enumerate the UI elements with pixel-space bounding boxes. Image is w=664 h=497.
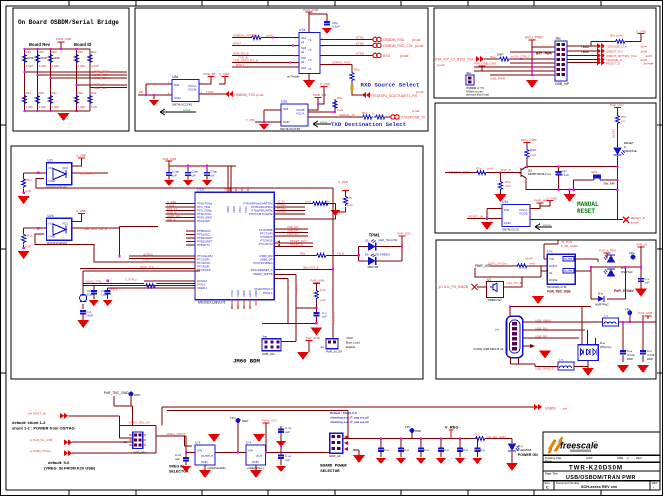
svg-text:R-x: R-x (475, 432, 480, 436)
svg-text:SIZE: SIZE (617, 456, 623, 460)
svg-text:uSTDIO: uSTDIO (143, 252, 154, 256)
svg-text:RESET_B: RESET_B (606, 62, 620, 66)
svg-text:PTAx_Bx: PTAx_Bx (294, 283, 298, 295)
svg-text:GND1: GND1 (549, 264, 558, 268)
svg-text:U-x: U-x (547, 250, 553, 254)
svg-text:OUTPUT: OUTPUT (201, 454, 214, 458)
svg-text:ETM2: ETM2 (356, 42, 364, 46)
svg-text:uxF: uxF (285, 430, 290, 434)
svg-text:PTAu_TTX: PTAu_TTX (140, 265, 154, 269)
svg-text:uxF: uxF (285, 458, 290, 462)
svg-text:xxMishi?a+x: xxMishi?a+x (247, 466, 264, 470)
svg-text:SN74LVC1T45: SN74LVC1T45 (280, 127, 300, 131)
svg-text:3a: 3a (549, 271, 553, 275)
svg-text:OUTA: OUTA (564, 257, 572, 261)
svg-text:HDR_3Ex: HDR_3Ex (133, 451, 147, 455)
svg-text:TPa: TPa (629, 251, 635, 255)
svg-text:PoR_TBC_USB: PoR_TBC_USB (547, 290, 571, 294)
svg-text:S_VBB: S_VBB (76, 154, 86, 158)
svg-text:PoR_TBC_GND: PoR_TBC_GND (104, 391, 129, 395)
svg-text:RESET_B: RESET_B (631, 216, 645, 220)
svg-text:(PGnnn): (PGnnn) (600, 345, 611, 349)
svg-text:GND: GND (504, 221, 512, 225)
svg-text:DNP: DNP (530, 148, 536, 152)
svg-text:4.64K: 4.64K (91, 64, 99, 68)
svg-text:ADC0: ADC0 (248, 290, 252, 297)
svg-text:DNP: DNP (54, 56, 60, 60)
svg-text:BRD_IDb: BRD_IDb (94, 86, 107, 90)
svg-text:OSB_s0a: OSB_s0a (262, 352, 275, 356)
svg-text:OSBDM_RXD_CTa: OSBDM_RXD_CTa (383, 44, 413, 48)
svg-text:R9a: R9a (354, 68, 360, 72)
svg-text:REV: REV (636, 456, 642, 460)
svg-text:RXD7: RXD7 (233, 42, 241, 46)
svg-text:VDDA: VDDA (236, 290, 240, 297)
svg-text:PoR_Ju_5V: PoR_Ju_5V (326, 350, 342, 354)
svg-text:SN74LVC1G: SN74LVC1G (502, 228, 520, 232)
svg-text:P_5B_USBa: P_5B_USBa (561, 244, 578, 248)
svg-text:J6a: J6a (555, 37, 561, 41)
svg-text:R3c: R3c (52, 91, 58, 95)
svg-text:GND2: GND2 (549, 278, 558, 282)
svg-text:LED_YELLOW: LED_YELLOW (379, 238, 398, 242)
svg-text:U7a: U7a (299, 28, 305, 32)
svg-text:1.0K: 1.0K (91, 105, 97, 109)
svg-text:R2b: R2b (39, 50, 45, 54)
svg-text:ETM1: ETM1 (356, 36, 364, 40)
svg-text:SN74LVC1T45: SN74LVC1T45 (172, 103, 192, 107)
svg-text:DNP: DNP (242, 419, 248, 423)
svg-text:TBDa: TBDa (581, 45, 589, 49)
svg-text:R9c: R9c (252, 34, 258, 38)
svg-text:TPx: TPx (405, 425, 411, 429)
svg-text:BOARD POWER: BOARD POWER (320, 465, 347, 469)
svg-text:R2e: R2e (91, 50, 97, 54)
svg-text:TPD_SER2_RX_B: TPD_SER2_RX_B (233, 59, 258, 63)
svg-text:VDD1: VDD1 (226, 206, 230, 213)
svg-text:PTC10/TSI: PTC10/TSI (259, 242, 273, 246)
svg-text:sn74cbtlv: sn74cbtlv (287, 75, 300, 79)
svg-text:TOD: TOD (143, 257, 149, 261)
svg-text:VDD2: VDD2 (232, 206, 236, 213)
svg-text:SERIAL_TX: SERIAL_TX (339, 113, 355, 117)
svg-text:TB GREEN: TB GREEN (375, 253, 389, 257)
svg-text:OSBDM_RXD: OSBDM_RXD (383, 38, 405, 42)
svg-text:DNP: DNP (627, 357, 633, 361)
svg-text:OSB_PWR: OSB_PWR (490, 77, 506, 81)
svg-text:DIR: DIR (283, 107, 289, 111)
svg-text:VOUT33/VREG: VOUT33/VREG (253, 261, 273, 265)
svg-text:VIN: VIN (549, 257, 554, 261)
svg-text:xxF: xxF (322, 315, 327, 319)
svg-text:ju=a#: ju=a# (630, 221, 639, 225)
svg-text:S_GND: S_GND (636, 30, 647, 34)
svg-text:U1x: U1x (502, 200, 508, 204)
svg-text:MIC2026-1YM: MIC2026-1YM (547, 285, 567, 289)
svg-text:VCCB: VCCB (519, 212, 527, 216)
svg-text:HDR_ab: HDR_ab (329, 454, 341, 458)
svg-text:R1s: R1s (27, 234, 33, 238)
svg-text:DNP: DNP (134, 393, 140, 397)
svg-text:RXD Source Select: RXD Source Select (361, 82, 420, 89)
svg-text:VSSA: VSSA (230, 290, 234, 297)
svg-text:OUT: OUT (256, 454, 263, 458)
svg-text:3Ba_RST_B: 3Ba_RST_B (303, 265, 319, 269)
svg-text:USB_DN: USB_DN (535, 326, 547, 330)
svg-text:1.00K: 1.00K (78, 105, 86, 109)
svg-text:PoRa_VCC: PoRa_VCC (262, 419, 278, 423)
svg-text:OSBDM_TXD: OSBDM_TXD (234, 93, 256, 97)
svg-text:VREF: VREF (242, 290, 246, 297)
svg-text:PG_RD_GRD: PG_RD_GRD (487, 435, 507, 439)
svg-text:PoR_VCC: PoR_VCC (610, 103, 625, 107)
svg-text:OSB_mP: OSB_mP (555, 82, 570, 86)
svg-text:a bus: a bus (543, 223, 551, 227)
svg-text:R9m: R9m (362, 111, 369, 115)
svg-text:VSS2: VSS2 (244, 206, 248, 213)
svg-text:freescale: freescale (560, 441, 598, 451)
svg-text:BAT - PWR: BAT - PWR (536, 52, 552, 56)
svg-text:PTD7a: PTD7a (277, 210, 286, 214)
svg-text:R3a: R3a (26, 91, 32, 95)
svg-text:PoR_USB: PoR_USB (163, 157, 177, 161)
svg-text:U1e: U1e (281, 100, 287, 104)
svg-text:S_GND: S_GND (219, 72, 230, 76)
svg-text:S_VDD: S_VDD (338, 180, 349, 184)
svg-text:1xpF: 1xpF (101, 293, 108, 297)
svg-text:PTB16/TX: PTB16/TX (197, 243, 210, 247)
svg-text:VCCB: VCCB (188, 88, 196, 92)
svg-text:D6: D6 (365, 253, 369, 257)
svg-text:SELECTOR: SELECTOR (320, 470, 340, 474)
svg-text:GND: GND (174, 96, 182, 100)
svg-text:C-u: C-u (384, 448, 389, 452)
svg-text:xxxF: xxxF (505, 184, 512, 188)
svg-text:TPM1: TPM1 (369, 233, 381, 238)
svg-text:USB_SHIELD: USB_SHIELD (535, 367, 555, 371)
svg-text:4.64K: 4.64K (78, 64, 86, 68)
svg-text:R9e: R9e (337, 96, 343, 100)
svg-text:xxF: xxF (191, 174, 196, 178)
svg-text:TPu: TPu (230, 416, 236, 420)
svg-text:R8x: R8x (325, 200, 331, 204)
svg-text:SW_MR: SW_MR (604, 182, 616, 186)
svg-text:TLED/DM: TLED/DM (518, 448, 532, 452)
svg-text:R3d: R3d (78, 91, 84, 95)
svg-text:PTE1ESP1_SOUT/UART1_RX: PTE1ESP1_SOUT/UART1_RX (370, 94, 418, 98)
svg-text:C-u: C-u (480, 448, 485, 452)
svg-text:1.00K: 1.00K (52, 105, 60, 109)
svg-text:ju=a#: ju=a# (411, 109, 420, 113)
svg-text:USB_VBUS: USB_VBUS (535, 318, 551, 322)
svg-text:4.64K: 4.64K (26, 64, 34, 68)
svg-text:4.64K: 4.64K (39, 64, 47, 68)
svg-text:PTD7/CMT/UARTa: PTD7/CMT/UARTa (249, 212, 273, 216)
svg-text:GND: GND (201, 460, 209, 464)
svg-text:dormant Boot load: dormant Boot load (466, 93, 489, 97)
svg-text:0.1uF: 0.1uF (562, 173, 570, 177)
svg-text:xxx: xxx (621, 119, 626, 123)
svg-text:BRD_REVc: BRD_REVc (94, 76, 110, 80)
svg-text:default: shunt 1-2: default: shunt 1-2 (12, 420, 46, 425)
svg-text:TXD1: TXD1 (206, 90, 214, 94)
svg-text:u5.0A: u5.0A (525, 257, 533, 261)
svg-text:Y4: Y4 (308, 67, 312, 71)
svg-text:xxNishiloaMG: xxNishiloaMG (207, 466, 226, 470)
svg-text:32KHZ_XTAL: 32KHZ_XTAL (85, 280, 102, 284)
svg-text:C-u: C-u (444, 448, 449, 452)
svg-text:VREFH: VREFH (197, 286, 206, 290)
svg-text:R8u: R8u (347, 196, 353, 200)
svg-text:3MK?1B: 3MK?1B (367, 265, 378, 269)
svg-text:USB_DP: USB_DP (535, 334, 547, 338)
svg-text:ju=a#: ju=a# (255, 93, 264, 97)
svg-text:DIR: DIR (174, 83, 180, 87)
svg-text:C-u: C-u (404, 448, 409, 452)
svg-text:R5a: R5a (476, 167, 482, 171)
svg-text:PoR_GND: PoR_GND (306, 336, 321, 340)
svg-text:OSB/JT_DO: OSB/JT_DO (606, 50, 623, 54)
svg-text:S_VBB: S_VBB (76, 209, 86, 213)
svg-text:R3b: R3b (39, 91, 45, 95)
svg-text:3B: 3B (139, 90, 143, 94)
svg-text:RXD: RXD (383, 54, 391, 58)
svg-text:xxF: xxF (172, 174, 177, 178)
svg-text:1.00K: 1.00K (39, 105, 47, 109)
svg-text:NSR?PaC: NSR?PaC (595, 303, 610, 307)
svg-text:ju# POUT_di+: ju# POUT_di+ (27, 412, 47, 416)
svg-text:REV: REV (652, 481, 658, 485)
svg-text:2x: 2x (124, 440, 128, 444)
svg-text:SCH-xxxxx REV xxx: SCH-xxxxx REV xxx (581, 485, 618, 489)
svg-text:GND: GND (283, 120, 291, 124)
svg-text:D5: D5 (365, 238, 369, 242)
svg-text:VIN: VIN (197, 449, 202, 453)
svg-text:PoR_LED: PoR_LED (397, 232, 411, 236)
svg-text:xxxF: xxxF (320, 298, 327, 302)
svg-text:RXD1: RXD1 (236, 63, 244, 67)
svg-text:U2s: U2s (48, 214, 54, 218)
svg-text:J-ar: J-ar (262, 335, 267, 339)
svg-text:J-u: J-u (495, 328, 499, 332)
svg-text:ICAP: ICAP (586, 456, 593, 460)
svg-text:4.64K: 4.64K (52, 64, 60, 68)
svg-text:S4A: S4A (301, 66, 306, 70)
svg-text:RESET_B/PTB: RESET_B/PTB (254, 272, 273, 276)
svg-text:shunt 1-2 : POWER from OS/TAG: shunt 1-2 : POWER from OS/TAG (12, 426, 75, 431)
svg-text:RST_B: RST_B (501, 168, 511, 172)
svg-text:R2d: R2d (78, 50, 84, 54)
svg-text:ju=a#: ju=a# (436, 63, 445, 67)
svg-text:0.1uF: 0.1uF (332, 25, 340, 29)
svg-text:MCU_PWR: MCU_PWR (521, 138, 537, 142)
svg-text:TDO/OSB_CLK: TDO/OSB_CLK (606, 45, 627, 49)
svg-text:C: C (546, 486, 549, 490)
svg-text:ju=a#: ju=a# (415, 90, 424, 94)
svg-text:RESET: RESET (577, 208, 595, 215)
svg-text:USB0: USB0 (254, 290, 258, 297)
svg-text:PoR_IN: PoR_IN (636, 243, 647, 247)
svg-text:J2a: J2a (466, 71, 471, 75)
svg-text:NMI_B: NMI_B (167, 217, 176, 221)
svg-text:VCCA: VCCA (296, 112, 304, 116)
svg-text:U-x: U-x (246, 441, 252, 445)
svg-text:V_REG: V_REG (445, 425, 459, 430)
svg-text:5.0V1_IN Cha: 5.0V1_IN Cha (488, 262, 507, 266)
svg-text:PWR_OSB: PWR_OSB (56, 37, 71, 41)
svg-text:J-u: J-u (320, 345, 324, 349)
svg-text:PoR_5V/3aV: PoR_5V/3aV (614, 289, 635, 293)
svg-text:PTA_ICP_C2_BT0a_Cha: PTA_ICP_C2_BT0a_Cha (435, 58, 473, 62)
svg-text:default: 5-6: default: 5-6 (48, 460, 70, 465)
svg-text:VIN: VIN (248, 449, 253, 453)
svg-text:TBDb: TBDb (581, 50, 589, 54)
svg-text:On Board OSBDM/Serial Bridge: On Board OSBDM/Serial Bridge (18, 19, 119, 26)
svg-text:U2r: U2r (48, 159, 54, 163)
svg-text:a1: a1 (301, 40, 305, 44)
svg-text:MK20DX128VLF5: MK20DX128VLF5 (198, 301, 225, 305)
svg-text:JuA#: JuA# (640, 45, 647, 49)
svg-text:VREG_SEL_1P: VREG_SEL_1P (129, 421, 150, 425)
svg-text:xxxF: xxxF (530, 153, 537, 157)
svg-text:PTA14/OSB_TX: PTA14/OSB_TX (401, 116, 426, 120)
svg-text:R1r: R1r (27, 178, 32, 182)
svg-text:SW1: SW1 (591, 170, 598, 174)
svg-text:PoR_OSB_GND: PoR_OSB_GND (474, 62, 497, 66)
svg-text:GND: GND (252, 460, 260, 464)
svg-text:GND: GND (49, 179, 57, 183)
svg-text:xxxK: xxxK (266, 34, 273, 38)
svg-text:xxxF: xxxF (337, 108, 344, 112)
svg-text:VREG_INPUT: VREG_INPUT (167, 432, 186, 436)
svg-text:U-x: U-x (195, 441, 201, 445)
svg-text:DNP: DNP (28, 56, 34, 60)
svg-text:JuA#: JuA# (640, 50, 647, 54)
svg-text:MMBT3904LT+G: MMBT3904LT+G (528, 172, 552, 176)
svg-text:R2a: R2a (26, 50, 32, 54)
svg-text:MCU_PWR: MCU_PWR (525, 36, 543, 40)
svg-text:(VREG_IN FROM K20 USB): (VREG_IN FROM K20 USB) (44, 466, 96, 471)
svg-text:T_XTALu: T_XTALu (125, 277, 137, 281)
svg-text:PoR_USB: PoR_USB (310, 279, 324, 283)
svg-text:xxxR: xxxR (25, 245, 33, 249)
svg-text:U1a: U1a (197, 188, 204, 192)
svg-text:OUTB: OUTB (564, 269, 572, 273)
svg-text:xxxR: xxxR (25, 189, 33, 193)
svg-text:TB_B: TB_B (337, 252, 344, 256)
svg-text:PWR_3B: PWR_3B (203, 72, 215, 76)
svg-text:VSS1: VSS1 (238, 206, 242, 213)
svg-text:SERIAL_RXD: SERIAL_RXD (332, 61, 352, 65)
svg-text:GND: GND (49, 235, 57, 239)
svg-text:shunting a-a : P_aaa a-a.aV: shunting a-a : P_aaa a-a.aV (330, 416, 369, 420)
svg-text:PMEG?a?: PMEG?a? (488, 298, 502, 302)
svg-text:NSR?aC: NSR?aC (621, 270, 634, 274)
svg-text:PWR_MB: PWR_MB (313, 93, 326, 97)
svg-text:Page Title:: Page Title: (545, 472, 558, 476)
svg-text:TXD Destination Select: TXD Destination Select (331, 121, 406, 128)
svg-text:DNP: DNP (647, 357, 653, 361)
svg-text:R6a: R6a (490, 55, 496, 59)
svg-text:shunting a-a : P_aaa a-a.aV: shunting a-a : P_aaa a-a.aV (330, 420, 369, 424)
svg-text:R8a: R8a (300, 252, 306, 256)
svg-text:S_GND: S_GND (547, 197, 558, 201)
svg-text:C-u: C-u (424, 448, 429, 452)
svg-text:Q1: Q1 (487, 278, 491, 282)
svg-text:JuA#a#: JuA#a# (643, 62, 654, 66)
svg-text:ju1 U12_PO_SINGB: ju1 U12_PO_SINGB (438, 285, 468, 289)
svg-text:™: ™ (594, 440, 597, 444)
svg-text:S_GND: S_GND (320, 82, 331, 86)
svg-text:PoR_a_REG: PoR_a_REG (599, 249, 617, 253)
svg-text:1.00K: 1.00K (26, 105, 34, 109)
svg-text:ju=a#: ju=a# (414, 44, 424, 48)
svg-text:PoR_USB: PoR_USB (638, 311, 652, 315)
svg-text:ju=a#: ju=a# (411, 38, 421, 42)
svg-text:DIR: DIR (504, 208, 510, 212)
svg-text:Y3: Y3 (308, 58, 312, 62)
svg-text:1xxF: 1xxF (320, 288, 327, 292)
svg-text:a2: a2 (301, 50, 305, 54)
svg-text:10pF: 10pF (87, 293, 94, 297)
svg-text:MANUAL: MANUAL (577, 201, 599, 208)
svg-text:ORANGE: ORANGE (624, 149, 637, 153)
svg-text:Size: Size (545, 481, 551, 485)
svg-text:DNP: DNP (87, 314, 93, 318)
svg-text:Board ID: Board ID (74, 42, 91, 47)
svg-text:T_3B3: T_3B3 (246, 118, 255, 122)
svg-text:VCC: VCC (62, 222, 69, 226)
svg-text:xxxF: xxxF (347, 203, 353, 207)
svg-text:Board Rev: Board Rev (29, 42, 51, 47)
svg-text:CONN USB MINI-B aa: CONN USB MINI-B aa (473, 347, 504, 351)
svg-text:a ICP_CTRL2: a ICP_CTRL2 (511, 55, 530, 59)
svg-text:Default : Shunt 5-6: Default : Shunt 5-6 (330, 411, 357, 415)
svg-text:L-u: L-u (559, 358, 564, 362)
svg-text:a bus: a bus (320, 120, 328, 124)
svg-text:C-u: C-u (463, 448, 468, 452)
svg-text:TPx: TPx (625, 308, 631, 312)
svg-text:a=5: a=5 (530, 262, 535, 266)
svg-text:PTA4/NMI: PTA4/NMI (197, 219, 210, 223)
svg-text:D-a: D-a (598, 292, 603, 296)
svg-text:Document Number: Document Number (556, 481, 580, 485)
svg-text:R3e: R3e (91, 91, 97, 95)
svg-text:uxF: uxF (175, 457, 180, 461)
svg-text:Boot Load: Boot Load (346, 341, 360, 345)
svg-text:RESET: RESET (612, 128, 616, 138)
svg-text:ju PoR_5w_USB: ju PoR_5w_USB (29, 438, 52, 442)
svg-text:R6x xxxK: R6x xxxK (610, 34, 623, 38)
svg-text:xxF: xxF (645, 281, 650, 285)
svg-text:xxxK: xxxK (487, 167, 494, 171)
svg-text:DNP: DNP (415, 429, 421, 433)
svg-text:xxF: xxF (210, 174, 215, 178)
svg-text:Y2: Y2 (308, 48, 312, 52)
svg-text:ju USBy_POLE: ju USBy_POLE (29, 449, 51, 453)
svg-text:RESET_IN: RESET_IN (468, 215, 483, 219)
svg-text:JM60 BDM: JM60 BDM (233, 358, 260, 365)
svg-text:J1K2: J1K2 (346, 336, 353, 340)
svg-text:a3: a3 (301, 60, 305, 64)
svg-text:VCC: VCC (62, 166, 69, 170)
svg-text:TPM1.1: TPM1.1 (263, 291, 273, 295)
svg-text:RESET_B: RESET_B (290, 243, 303, 247)
svg-text:DNP: DNP (41, 56, 47, 60)
svg-text:USB_ID_x: USB_ID_x (332, 311, 336, 325)
svg-text:ju=a#: ju=a# (399, 54, 409, 58)
svg-text:ju#: ju# (562, 407, 567, 411)
